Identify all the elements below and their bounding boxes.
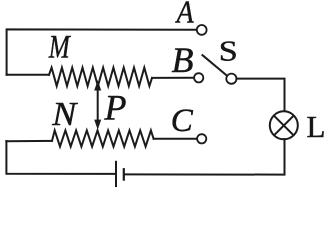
wire N to C — [154, 138, 197, 140]
wire bottom left — [6, 141, 114, 174]
switch S blade — [203, 55, 227, 75]
svg-text:B: B — [172, 40, 194, 80]
wire top (A branch) — [7, 29, 197, 74]
wire lamp to bottom — [125, 139, 285, 175]
wiper P arrowheads — [94, 80, 101, 130]
battery short plate — [123, 169, 125, 179]
svg-text:A: A — [175, 0, 194, 30]
svg-text:C: C — [171, 103, 194, 139]
wire M left — [7, 74, 49, 76]
wire M to B — [152, 77, 194, 79]
wire S to lamp — [236, 79, 284, 112]
svg-text:L: L — [307, 109, 326, 144]
lamp L — [270, 111, 298, 139]
wire N left — [6, 140, 52, 142]
node A — [197, 25, 207, 35]
node C — [197, 134, 206, 143]
resistor N — [52, 130, 154, 146]
resistor M — [49, 68, 152, 86]
switch S pivot — [226, 74, 236, 84]
svg-text:N: N — [51, 96, 79, 133]
svg-text:S: S — [219, 36, 238, 67]
wiper P double arrow — [97, 88, 99, 122]
svg-text:M: M — [48, 30, 71, 66]
node B — [194, 73, 203, 82]
battery long plate — [115, 162, 117, 186]
svg-text:P: P — [104, 88, 127, 128]
